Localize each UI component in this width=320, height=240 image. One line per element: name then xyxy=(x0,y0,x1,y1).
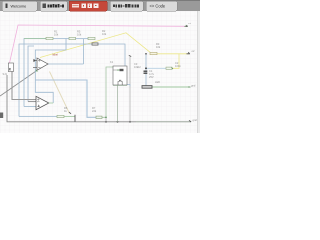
svg-text:10k: 10k xyxy=(54,33,59,37)
svg-text:<> Code: <> Code xyxy=(150,4,166,9)
svg-text:10k: 10k xyxy=(77,33,82,37)
svg-text:SJ1: SJ1 xyxy=(3,72,8,76)
svg-text:25V: 25V xyxy=(149,75,154,79)
svg-text:10k: 10k xyxy=(156,45,161,49)
svg-text:K1: K1 xyxy=(110,60,114,64)
svg-text:100n: 100n xyxy=(175,64,181,68)
svg-text:K2: K2 xyxy=(138,65,142,69)
svg-text:out: out xyxy=(188,22,191,25)
svg-text:gn2: gn2 xyxy=(193,118,198,122)
svg-text:gnd: gnd xyxy=(191,84,196,88)
svg-text:10k: 10k xyxy=(102,32,107,36)
svg-text:label: label xyxy=(53,53,59,56)
svg-text:22k: 22k xyxy=(92,109,97,113)
svg-text:Welcome: Welcome xyxy=(11,5,27,9)
svg-text:LED: LED xyxy=(155,80,160,84)
